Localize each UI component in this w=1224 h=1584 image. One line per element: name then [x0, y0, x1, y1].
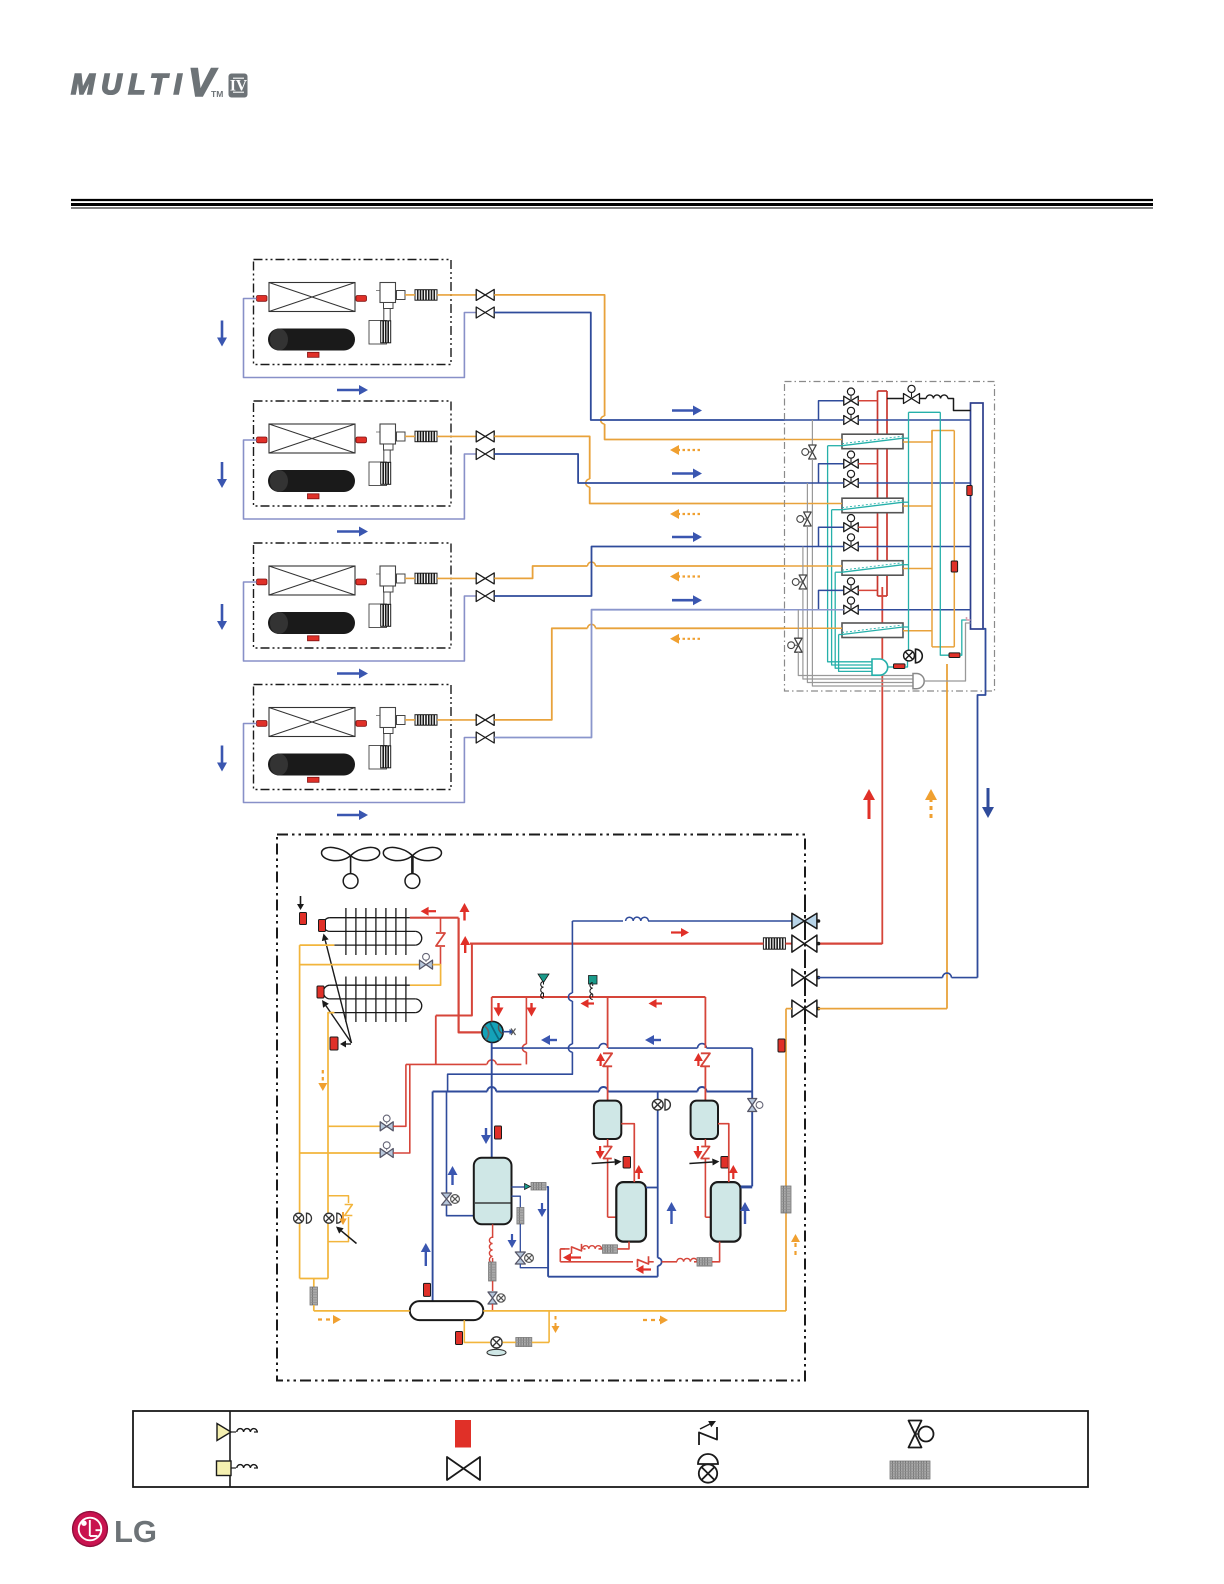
indoor unit 2 heat exchanger [269, 424, 355, 453]
HR branch2 suction solenoid valve [844, 470, 859, 487]
indoor unit 4 liquid line (orange, inside) [405, 719, 476, 721]
row2 liquid flow arrow (orange dashed left) [670, 509, 700, 519]
HR branch4 liquid entry (orange) [785, 627, 843, 629]
HR teal collector manifold [872, 659, 888, 675]
EVI drain branch (navy) [512, 1196, 521, 1207]
indoor unit 2 gas service valve [476, 449, 494, 460]
MULTI V IV badge [229, 74, 248, 98]
red riser flow arrow (up) [460, 903, 471, 953]
suction pipe into unit (blue) [818, 973, 978, 978]
oil return to comp2 (red) [712, 1242, 720, 1262]
indoor unit 2 HX right port (red) [356, 437, 367, 443]
v0 drain line (red) [492, 1281, 494, 1291]
hot gas bypass Z (red) [436, 918, 445, 965]
HR header sensor [967, 486, 972, 496]
coil sensor 1 [300, 913, 307, 925]
indoor unit 1 cabinet (dashed box) [254, 260, 452, 365]
indoor unit 3 rightward flow arrow [337, 669, 368, 679]
HR branch3 EEV feed (gray) [802, 547, 804, 576]
HR branch3 EEV [792, 575, 806, 589]
indoor unit 1 capillary coil on liquid line [415, 290, 437, 301]
row1 liquid flow arrow (orange dashed left) [670, 445, 700, 455]
indoor unit 3 sensor under cylinder [308, 636, 320, 641]
oil line comp1-comp2 link (red) [560, 1249, 565, 1262]
compressor 1 discharge arrow 2 (red up) [634, 1165, 643, 1179]
HR branch4 liquid out to orange bus [903, 630, 932, 632]
oil return to comp1 (red) [618, 1242, 630, 1249]
right comp arrows (blue up) [667, 1202, 751, 1224]
compressor 1 oil separator vessel [594, 1101, 621, 1139]
indoor unit 4 heat exchanger [269, 708, 355, 737]
indoor unit 4 rightward flow arrow [337, 810, 368, 820]
HR branch1 liquid out to orange bus [903, 431, 954, 443]
compressor 2 discharge Z check [701, 1053, 710, 1100]
indoor unit 1 EEV body [376, 283, 405, 321]
HR teal top link [909, 411, 941, 413]
v0 bypass loop (navy) [447, 1092, 474, 1216]
hot-gas service line (navy) [572, 917, 791, 921]
EVI outlet (navy) [547, 1187, 548, 1277]
left bypass arrow (orange down) [339, 1212, 347, 1225]
indoor unit 2 liquid line (orange, inside) [405, 435, 476, 437]
HR branch2 gas entry (blue) [785, 482, 844, 484]
legend expansion valve [909, 1421, 934, 1448]
indoor unit 3 EEV body [376, 566, 405, 604]
compressor 2 discharge arrow (red up) [694, 1053, 703, 1066]
header sensor 2 (teal square) [589, 976, 598, 1000]
HR branch1 hot-gas solenoid feed (blue) [819, 401, 844, 420]
liquid line left section (yellow) [300, 1153, 328, 1287]
unit3 liquid pipe to HR (orange) [494, 562, 784, 578]
compressor 1 discharge Z check [603, 1053, 612, 1100]
HR branch1 subcooler HX [842, 434, 903, 449]
HR branch4 subcool teal drop [839, 635, 872, 672]
HR branch3 liquid entry (orange) [785, 565, 843, 567]
indoor unit 2 rightward flow arrow [337, 527, 368, 537]
discharge inner line (red) [470, 943, 792, 945]
comp2 suction elbow [740, 1185, 753, 1187]
compressor 2 sensor [721, 1157, 728, 1169]
accumulator drain filter [516, 1338, 532, 1347]
indoor unit 4 EEV body [376, 708, 405, 746]
compressor 1 sensor pointer [592, 1158, 622, 1165]
HR teal collector sight glass [888, 664, 905, 669]
indoor unit 1 HX left port (red) [257, 296, 268, 302]
oil drain arrow (orange dashed down) [552, 1316, 560, 1333]
accumulator [410, 1301, 484, 1320]
HR liquid pipe to outdoor (orange) [946, 664, 948, 1009]
comp1 suction valve (ox) [652, 1099, 670, 1110]
compressor 1 vessel drain Z (red) [603, 1139, 616, 1217]
compressor 2 vessel drain arrow (red down) [693, 1146, 702, 1159]
HR branch4 gas entry (blue) [785, 609, 844, 611]
row2 gas flow arrow (blue right) [672, 469, 702, 479]
injection valve 2 [380, 1115, 393, 1131]
legend solenoid (dome ox) [698, 1454, 718, 1483]
suction vessel v0 [474, 1158, 512, 1225]
liquid riser (orange) [785, 1009, 787, 1311]
injection header (red) [406, 1060, 522, 1065]
HR branch3 hot-gas solenoid feed (blue) [819, 527, 844, 546]
HR branch4 suction solenoid valve [844, 597, 859, 614]
indoor unit 2 liquid service valve [476, 431, 494, 442]
indoor unit 2 gas line loop (periwinkle) [244, 440, 477, 519]
EVI drain valve [515, 1252, 533, 1264]
indoor unit 3 cabinet (dashed box) [254, 543, 452, 648]
accumulator drain sensor [456, 1332, 463, 1345]
red stair segment [435, 1016, 437, 1065]
HR top relief coil [920, 395, 971, 411]
discharge flow arrow (red right) [671, 928, 689, 937]
indoor unit 4 cabinet (dashed box) [254, 685, 452, 790]
suction drop to accumulator (navy) [432, 1092, 434, 1302]
HR branch4 hot-gas stub (red) [858, 589, 877, 591]
HR branch1 gas entry (blue) [785, 419, 844, 421]
indoor unit 3 fan cylinder [268, 612, 355, 634]
HR orange bus bottom link [932, 646, 954, 648]
legend check valve (Z with arrow) [699, 1421, 717, 1445]
injection line 2 (yellow) [328, 1125, 380, 1127]
defrost to coil2 (yellow) [410, 965, 441, 986]
oil return comp2 (red) [560, 1256, 697, 1267]
left oxD valve 2 [324, 1213, 342, 1223]
mid navy arrows (blue left) [541, 1035, 661, 1045]
service valve 1 (hot gas, blue) [792, 913, 820, 929]
indoor unit 4 fan cylinder [268, 754, 355, 776]
suction riser arrow (blue down) [982, 788, 994, 818]
unit2 gas pipe to HR (blue) [494, 454, 784, 483]
compressor 1 sensor [623, 1157, 630, 1169]
four-way valve [482, 1021, 516, 1042]
indoor unit 2 HX left port (red) [257, 437, 268, 443]
legend valve (bowtie) [447, 1457, 480, 1480]
HR branch1 liquid entry (orange) [785, 439, 843, 441]
header sensor 1 (teal triangle) [538, 974, 549, 998]
indoor unit 1 gas line loop (periwinkle) [244, 299, 477, 378]
row4 gas flow arrow (blue right) [672, 595, 702, 605]
oil return comp1 (red) [560, 1244, 602, 1254]
HR branch4 suction line to header (navy) [858, 609, 970, 611]
indoor unit 3 downward flow arrow [217, 604, 227, 630]
indoor unit 4 gas line loop (periwinkle) [244, 724, 477, 803]
HR branch1 hot-gas stub (red) [858, 400, 877, 402]
HR bus B sensor [951, 561, 957, 572]
HR branch2 hot-gas solenoid valve [844, 451, 859, 468]
row4 liquid flow arrow (orange dashed left) [670, 634, 700, 644]
unit2 liquid pipe to HR (orange) [494, 436, 784, 503]
left oxD valve 1 [294, 1213, 312, 1223]
HR branch4 subcooler HX [842, 623, 903, 638]
HR teal return drop [940, 412, 949, 655]
HR branch4 EEV [788, 638, 802, 652]
indoor unit 1 EEV coil [381, 321, 391, 343]
indoor unit 3 gas service valve [476, 591, 494, 602]
HR branch2 liquid out to orange bus [903, 505, 932, 507]
suction vessel sensor [495, 1126, 502, 1139]
HR branch1 EEV feed (gray) [811, 420, 813, 445]
HR branch3 gas entry (blue) [785, 546, 844, 548]
HR branch2 EEV feed (gray) [806, 483, 808, 512]
svg-text:TM: TM [211, 89, 223, 99]
HR branch2 hot-gas stub (red) [858, 463, 877, 465]
left annotation arrow [336, 1227, 357, 1244]
indoor unit 1 heat exchanger [269, 283, 355, 312]
indoor unit 3 EEV motor box [369, 604, 387, 628]
indoor unit 4 downward flow arrow [217, 746, 227, 772]
compressor 2 compressor [711, 1182, 741, 1242]
unit4 liquid pipe to HR (orange) [494, 624, 784, 720]
HR suction pipe to outdoor (blue) [978, 629, 986, 978]
comp2 suction valve [748, 1099, 763, 1112]
v0 oil drain (red) [489, 1224, 492, 1263]
liquid riser arrow (orange dashed up) [925, 789, 937, 818]
suction flow arrow (navy up) [421, 1243, 431, 1266]
unit1 liquid pipe to HR (orange) [494, 295, 784, 440]
indoor unit 2 EEV body [376, 424, 405, 462]
HR branch3 hot-gas stub (red) [858, 526, 877, 528]
comp1 suction riser (navy) [658, 1092, 662, 1277]
injection line 1 (yellow) [300, 1152, 380, 1154]
indoor unit 2 downward flow arrow [217, 462, 227, 488]
injection red 2 [393, 1064, 406, 1126]
v0 bypass arrow (navy up) [448, 1166, 458, 1185]
HR branch4 subcooler teal pass [842, 625, 909, 635]
oil drain return (yellow) [503, 1311, 550, 1343]
indoor unit 2 capillary coil on liquid line [415, 431, 437, 442]
indoor unit 2 cabinet (dashed box) [254, 401, 452, 506]
indoor unit 1 HX right port (red) [356, 296, 367, 302]
outdoor unit box (dash-dot) [277, 835, 805, 1381]
EVI drain line (navy) [519, 1224, 521, 1252]
unit4 gas pipe to HR (blue) [494, 610, 784, 738]
indoor unit 3 EEV coil [381, 604, 391, 626]
indoor unit 2 EEV motor box [369, 462, 387, 486]
HR header inlet elbow (pink) [967, 617, 971, 620]
discharge capillary coil [763, 938, 785, 949]
liquid line dashed arrows (yellow right) [318, 1315, 668, 1325]
indoor unit 1 rightward flow arrow [337, 385, 368, 395]
legend box [133, 1411, 1088, 1487]
suction return line (navy) [548, 1276, 658, 1278]
v0 bypass valve [442, 1193, 460, 1205]
LG logo mark [73, 1512, 108, 1547]
coil1 flow arrow (red left) [421, 907, 436, 916]
HR branch3 hot-gas solenoid valve [844, 515, 859, 532]
mid navy line [492, 1044, 753, 1049]
HR branch2 liquid entry (orange) [785, 503, 843, 505]
outdoor box edge over valves [804, 900, 806, 1030]
HR branch1 subcool teal drop [828, 446, 872, 662]
indoor unit 2 fan cylinder [268, 470, 355, 492]
HR branch3 subcooler teal pass [842, 563, 909, 573]
HR branch4 hot-gas solenoid feed (blue) [819, 590, 844, 609]
row3 gas flow arrow (blue right) [672, 532, 702, 542]
oil return filter 2 [697, 1258, 712, 1267]
compressor 2 sensor pointer [689, 1158, 719, 1165]
HR branch4 hot-gas solenoid valve [844, 578, 859, 595]
injection from red header (red) [522, 997, 526, 1064]
indoor unit 4 HX left port (red) [257, 721, 268, 727]
indoor unit 4 gas service valve [476, 732, 494, 743]
hot-gas line drop (navy) [448, 921, 573, 1092]
suction vessel flow arrow (blue down) [481, 1128, 491, 1144]
HR branch1 hot-gas solenoid valve [844, 388, 859, 405]
oil drain from accumulator (yellow) [464, 1320, 490, 1342]
HR top relief valve [887, 385, 920, 403]
HR branch2 subcooler teal pass [842, 500, 909, 510]
outdoor fan 1 [322, 847, 380, 888]
HR high-pressure gas bus (red) [878, 391, 888, 596]
indoor unit 4 EEV motor box [369, 746, 387, 770]
compressor 1 discharge pipe (red) [621, 1124, 634, 1182]
four-way to suction vessel (navy) [491, 1043, 493, 1158]
HR branch2 subcooler HX [842, 498, 903, 513]
liquid through line (yellow) [314, 1305, 786, 1311]
outdoor fan 2 [383, 847, 441, 888]
indoor unit 2 EEV coil [381, 462, 391, 484]
indoor unit 4 capillary coil on liquid line [415, 715, 437, 726]
discharge riser arrow (red up) [863, 789, 875, 819]
HR branch1 suction line to header (navy) [858, 419, 970, 421]
indoor unit 2 sensor under cylinder [308, 494, 320, 499]
oil return comp2 arrow (red left) [636, 1265, 652, 1274]
compressor discharge header (red) [492, 996, 706, 998]
liquid line filter A [310, 1287, 318, 1305]
compressor 1 suction pipe (navy) [646, 1187, 658, 1189]
oil return filter 1 [603, 1245, 618, 1254]
compressor 2 discharge column (red) [704, 997, 706, 1048]
v0 drain valve [488, 1292, 505, 1304]
v0 drain filter [489, 1262, 497, 1281]
service valve 2 (discharge) [792, 935, 820, 952]
HR suction header (vertical vessel) [971, 403, 984, 629]
HR branch3 EEV drain (gray) [803, 589, 913, 679]
liquid pipe to valve4 (orange) [786, 1008, 947, 1010]
compressor 2 vessel drain Z (red) [701, 1139, 711, 1217]
liquid riser filter [781, 1186, 791, 1213]
coil2 liquid out (orange) [328, 1013, 334, 1279]
coil sensor 1 pointer [297, 896, 304, 910]
HR branch1 suction solenoid valve [844, 407, 859, 424]
indoor unit 4 sensor under cylinder [308, 777, 320, 782]
legend sensor (red rect) [455, 1420, 471, 1448]
HR branch3 suction solenoid valve [844, 534, 859, 551]
HR teal subcool supply riser [908, 412, 910, 650]
HR branch2 EEV drain (gray) [807, 526, 913, 683]
suction drop sensor [424, 1283, 431, 1296]
indoor unit 1 gas service valve [476, 307, 494, 318]
compressor 1 compressor [616, 1182, 646, 1242]
HR gray collector manifold [913, 674, 924, 689]
HR branch2 suction line to header (navy) [858, 482, 970, 484]
indoor unit 4 liquid service valve [476, 714, 494, 725]
EVI drain to line (navy) [520, 1264, 548, 1268]
HR teal sight glass 2 [949, 653, 960, 658]
indoor unit 1 liquid service valve [476, 289, 494, 300]
EVI inlet (navy) [512, 1186, 525, 1188]
navy drop to comp2 [751, 1048, 753, 1186]
row1 gas flow arrow (blue right) [672, 406, 702, 416]
HR branch1 subcooler teal pass [842, 436, 909, 446]
indoor unit 1 liquid line (orange, inside) [405, 294, 476, 296]
discharge drop to liquid loop (red) [436, 943, 472, 1016]
indoor unit 1 fan cylinder [268, 329, 355, 351]
liquid riser sensor [778, 1039, 785, 1052]
indoor unit 3 capillary coil on liquid line [415, 573, 437, 584]
EVI plate heat exchanger [525, 1183, 547, 1191]
HR teal to header [960, 620, 967, 655]
indoor unit 3 heat exchanger [269, 566, 355, 595]
compressor 1 discharge arrow (red up) [596, 1053, 605, 1066]
HR branch3 subcool teal drop [835, 572, 872, 668]
legend low pressure sensor symbol [217, 1461, 259, 1476]
EVI drain filter [517, 1208, 524, 1225]
indoor unit 1 downward flow arrow [217, 321, 227, 347]
compressor 2 discharge pipe (red) [718, 1124, 729, 1182]
outdoor condenser coil 1 [323, 908, 421, 955]
discharge line from coil1 (red) [410, 917, 459, 919]
HR branch1 EEV [802, 445, 816, 459]
sensor annotation arrows [322, 934, 352, 1048]
injection red 1 [393, 1064, 410, 1153]
HR unit box (gray dashed) [785, 382, 995, 692]
unit3 gas pipe to HR (blue) [494, 547, 784, 597]
header flow arrows (red left) [581, 999, 663, 1008]
HR branch1 EEV drain (gray) [812, 459, 913, 686]
coil sensor 4 [330, 1037, 338, 1050]
compressor 1 vessel drain arrow (red down) [596, 1146, 605, 1159]
LG logo text [114, 1514, 157, 1549]
HR orange bus A [931, 431, 933, 647]
HR branch3 suction line to header (navy) [858, 546, 970, 548]
v0 drain to liquid line (red) [492, 1304, 494, 1311]
indoor unit 4 EEV coil [381, 746, 391, 768]
yellow dashed down arrow [318, 1070, 327, 1091]
compressor 2 suction pipe (navy) [741, 1187, 753, 1189]
indoor unit 1 EEV motor box [369, 321, 387, 345]
red down arrows at header [494, 1003, 537, 1017]
row3 liquid flow arrow (orange dashed left) [670, 572, 700, 582]
compressor 2 oil separator vessel [691, 1101, 718, 1139]
injection valve 1 [380, 1142, 393, 1158]
HR branch4 EEV feed (gray) [797, 610, 799, 639]
HR branch2 EEV [797, 512, 811, 526]
discharge main from HR (red) [818, 942, 882, 944]
liquid riser arrow (yellow dashed up) [791, 1234, 800, 1255]
indoor unit 1 sensor under cylinder [308, 352, 320, 357]
HR branch3 subcooler HX [842, 561, 903, 576]
indoor unit 3 HX right port (red) [356, 579, 367, 585]
defrost valve [420, 953, 433, 969]
indoor unit 4 HX right port (red) [356, 721, 367, 727]
EVI outlet arrow (blue down) [538, 1203, 547, 1217]
indoor unit 3 gas line loop (periwinkle) [244, 582, 477, 661]
defrost line (yellow) [300, 944, 335, 946]
HR branch3 liquid out to orange bus [903, 568, 932, 570]
oil return comp1 flow arrow (red left) [563, 1253, 581, 1262]
outdoor condenser coil 2 [323, 977, 421, 1023]
compressor 1 discharge column (red) [607, 997, 609, 1048]
HR branch2 hot-gas solenoid feed (blue) [819, 464, 844, 483]
MULTI V logo text [71, 61, 223, 105]
indoor unit 3 HX left port (red) [257, 579, 268, 585]
service valve 3 (suction) [792, 969, 820, 986]
service valve 4 (liquid) [792, 1000, 820, 1017]
HR orange bus B [953, 431, 955, 647]
HR teal service valve [904, 649, 923, 667]
EVI drain arrow (blue down) [508, 1234, 517, 1248]
svg-text:LG: LG [114, 1514, 157, 1549]
